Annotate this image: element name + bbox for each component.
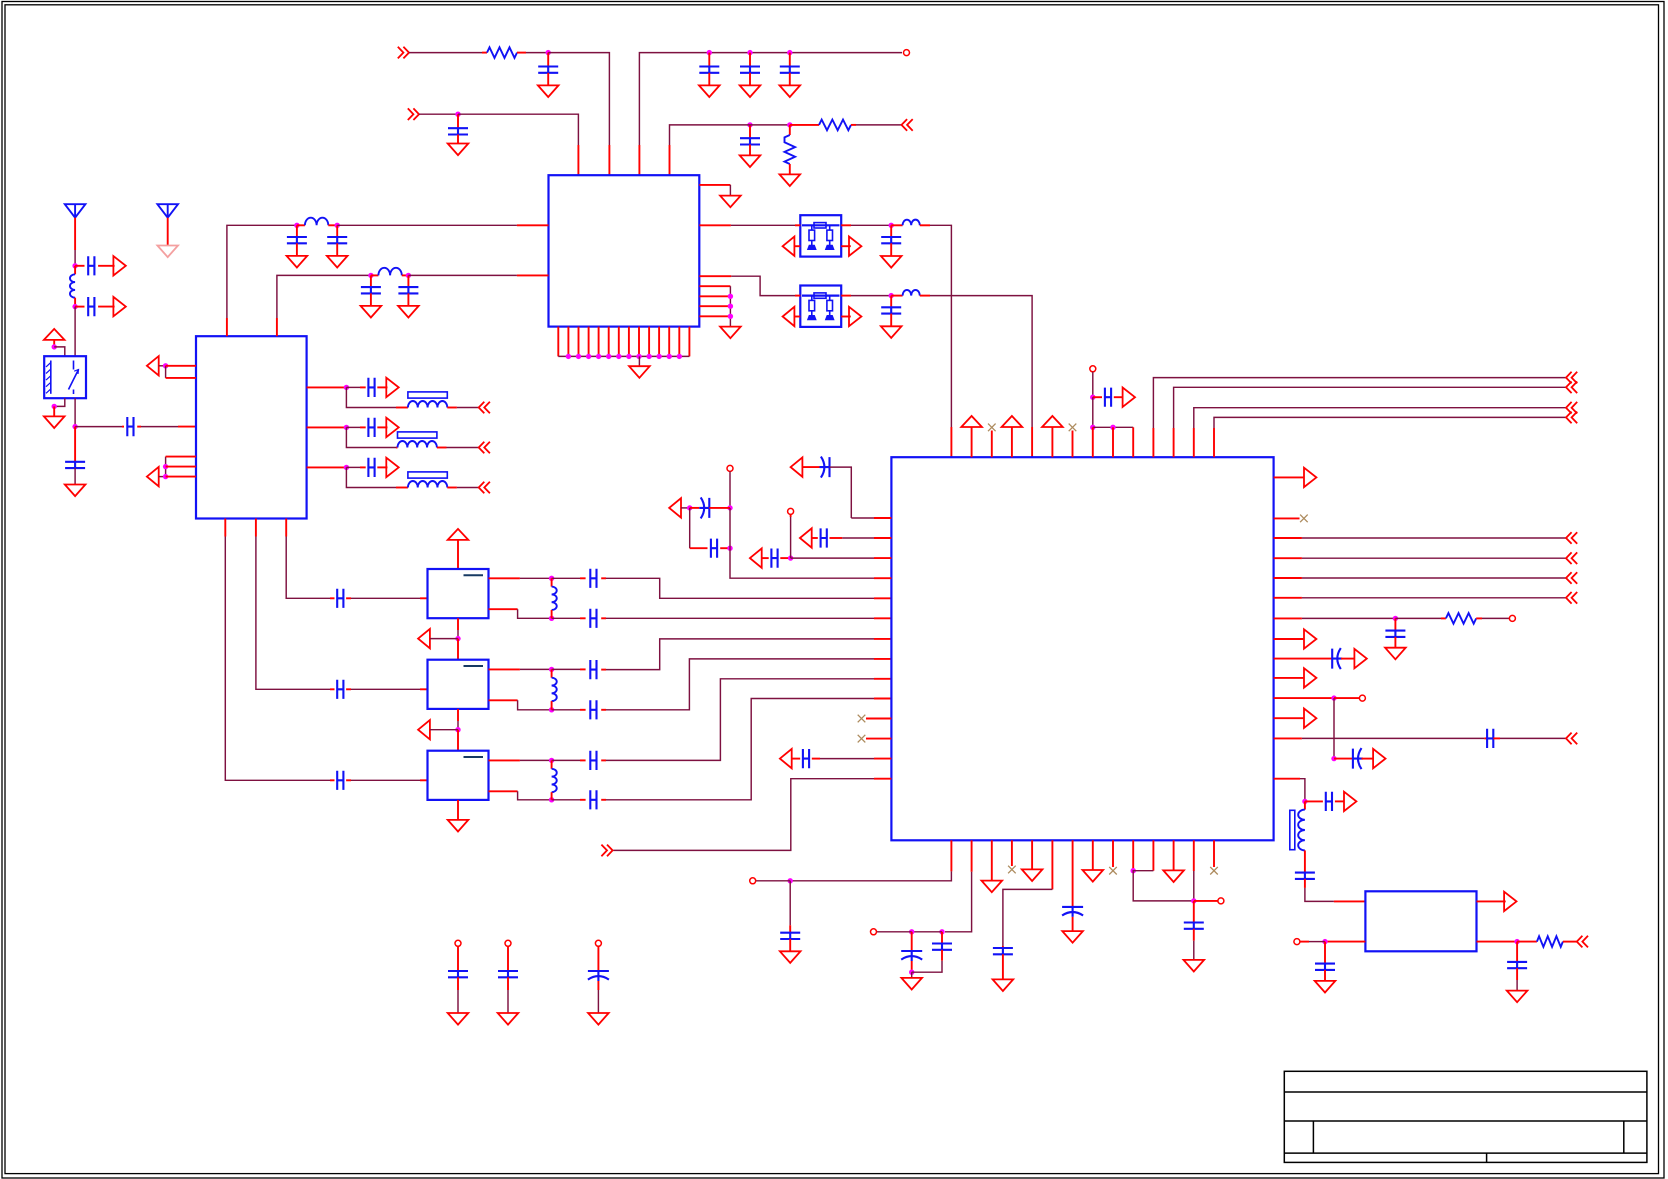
port P30: [1566, 382, 1577, 394]
junction: [728, 314, 733, 319]
wire: [296, 243, 298, 256]
wire: [396, 447, 398, 449]
junction: [586, 354, 591, 359]
port P2: [408, 108, 419, 120]
junction: [687, 505, 692, 510]
wire: [98, 306, 115, 308]
junction: [163, 464, 168, 469]
inductor core: [1290, 810, 1295, 849]
capacitor C23: [590, 569, 596, 588]
wire: [912, 961, 942, 973]
ground: [65, 485, 86, 497]
wire: [699, 224, 731, 226]
wire: [351, 597, 420, 599]
wire: [377, 386, 387, 388]
wire: [166, 365, 196, 367]
ground: [740, 155, 761, 167]
wire: [1092, 427, 1094, 457]
wire: [1274, 537, 1302, 539]
wire: [1214, 417, 1566, 428]
wire: [745, 124, 790, 126]
wire: [790, 517, 792, 558]
wire: [346, 386, 360, 388]
wire: [1300, 941, 1309, 943]
wire: [1274, 697, 1334, 699]
wire: [457, 730, 459, 751]
wire: [856, 124, 902, 126]
junction: [1090, 425, 1095, 430]
junction: [728, 304, 733, 309]
port P40: [1344, 792, 1356, 811]
junction: [707, 50, 712, 55]
junction: [549, 797, 554, 802]
capacitor C30: [821, 528, 827, 547]
wire: [520, 668, 552, 670]
wire: [729, 185, 731, 196]
wire: [874, 758, 891, 760]
capacitor C37: [1332, 648, 1342, 669]
ground: [498, 1013, 519, 1025]
wire: [729, 286, 731, 326]
wire: [1193, 941, 1195, 960]
wire: [789, 125, 791, 135]
port P27: [601, 845, 612, 857]
junction: [727, 546, 732, 551]
junction: [1131, 868, 1136, 873]
wire: [1302, 577, 1566, 579]
inductor L2: [903, 220, 920, 226]
junction: [787, 50, 792, 55]
wire: [1362, 758, 1373, 760]
junction: [72, 424, 77, 429]
ground: [1062, 931, 1083, 943]
capacitor: [588, 971, 609, 981]
wire: [75, 306, 84, 308]
port P5: [849, 237, 861, 256]
wire: [307, 426, 347, 428]
wire: [1305, 800, 1323, 802]
wire: [1152, 840, 1154, 870]
wire: [54, 347, 65, 356]
wire: [346, 467, 396, 487]
wire: [1477, 900, 1506, 902]
wire: [639, 53, 902, 145]
wire: [1193, 929, 1195, 941]
port P20: [418, 629, 430, 648]
wire: [457, 114, 459, 128]
wire: [588, 327, 590, 357]
wire: [749, 145, 751, 156]
ground: [699, 85, 720, 97]
port P7: [849, 307, 861, 326]
wire: [557, 327, 559, 357]
wire: [812, 537, 818, 539]
wire: [874, 557, 891, 559]
wire: [552, 759, 580, 761]
wire: [812, 758, 820, 760]
capacitor C21: [337, 680, 343, 699]
junction: [728, 294, 733, 299]
wire: [911, 932, 913, 951]
ground: [44, 416, 65, 428]
wire: [945, 872, 972, 932]
wire: [1563, 941, 1577, 943]
antenna ANT2: [157, 204, 178, 218]
wire: [402, 274, 409, 276]
wire: [681, 507, 690, 509]
wire: [408, 274, 517, 276]
wire: [74, 298, 76, 307]
wire: [1274, 517, 1300, 519]
wire: [601, 669, 606, 671]
wire: [1031, 427, 1033, 457]
ground: [538, 85, 559, 97]
wire: [346, 688, 351, 690]
wire: [547, 73, 549, 86]
capacitor C3: [740, 67, 760, 73]
capacitor C35: [1105, 388, 1111, 407]
no-connect X: [1109, 867, 1117, 875]
ground: [629, 366, 650, 378]
wire: [930, 296, 1032, 427]
ground: [1184, 960, 1205, 972]
amplifier U6: [428, 660, 489, 709]
wire: [457, 618, 459, 630]
wire: [699, 295, 730, 297]
wire: [137, 426, 141, 428]
junction: [667, 354, 672, 359]
junction: [889, 223, 894, 228]
wire: [224, 519, 226, 537]
inductor L8: [552, 587, 557, 610]
wire: [159, 365, 166, 367]
wire: [1304, 879, 1306, 888]
wire: [517, 52, 526, 54]
wire: [830, 537, 843, 539]
junction: [335, 223, 340, 228]
wire: [1072, 431, 1074, 458]
wire: [720, 547, 730, 549]
resistor R3: [819, 120, 851, 131]
wire: [670, 125, 746, 145]
wire: [457, 407, 479, 409]
wire: [1072, 917, 1074, 931]
wire: [789, 73, 791, 86]
junction: [549, 707, 554, 712]
no-connect X: [1300, 515, 1308, 523]
wire: [638, 145, 640, 175]
wire: [749, 53, 751, 67]
wire: [789, 925, 791, 933]
capacitor C31: [771, 549, 777, 568]
wire: [75, 265, 84, 267]
wire: [346, 387, 396, 407]
ground: [982, 881, 1003, 893]
wire: [489, 759, 520, 761]
ground: [588, 1013, 609, 1025]
capacitor C28: [590, 790, 596, 809]
no-connect circle: [788, 508, 794, 514]
wire: [1274, 737, 1302, 739]
no-connect X: [858, 715, 866, 723]
wire: [457, 630, 459, 639]
wire: [1517, 941, 1537, 943]
wire: [551, 760, 553, 768]
wire: [437, 447, 447, 449]
wire: [731, 224, 795, 226]
wire: [337, 224, 517, 226]
no-connect X: [858, 735, 866, 743]
wire: [792, 758, 801, 760]
wire: [552, 577, 580, 579]
wire: [1335, 800, 1344, 802]
ground: [448, 820, 469, 832]
wire: [794, 245, 800, 247]
junction: [787, 122, 792, 127]
no-connect circle: [750, 878, 756, 884]
wire: [780, 557, 790, 559]
port P14b: [479, 482, 490, 494]
no-connect circle: [1294, 939, 1300, 945]
port P39: [1373, 749, 1385, 768]
wire: [851, 124, 856, 126]
wire: [1193, 428, 1195, 457]
wire: [346, 426, 360, 428]
inductor L1: [70, 274, 75, 297]
wire: [658, 327, 660, 357]
wire: [1194, 408, 1566, 428]
wire: [941, 932, 943, 944]
wire: [601, 709, 606, 711]
capacitor C9: [88, 256, 94, 275]
wire: [580, 709, 586, 711]
port P10: [147, 356, 159, 375]
wire: [613, 779, 874, 851]
wire: [1302, 597, 1566, 599]
capacitor C42: [1507, 962, 1527, 968]
wire: [1274, 557, 1302, 559]
port P34: [1304, 629, 1316, 648]
wire: [407, 293, 409, 306]
wire: [346, 597, 351, 599]
wire: [731, 276, 795, 295]
capacitor C44: [780, 933, 800, 939]
capacitor C41: [1295, 873, 1315, 879]
junction: [626, 354, 631, 359]
wire: [790, 124, 819, 126]
ground: [780, 951, 801, 963]
wire: [98, 265, 115, 267]
wire: [598, 327, 600, 357]
wire: [360, 386, 366, 388]
SAW filter FL2: [800, 286, 841, 327]
wire: [165, 457, 167, 477]
wire: [447, 407, 457, 409]
wire: [256, 537, 330, 690]
wire: [330, 688, 335, 690]
port: [1566, 592, 1577, 604]
junction: [549, 667, 554, 672]
capacitor C5: [448, 128, 468, 134]
wire: [866, 718, 891, 720]
port P26: [780, 749, 792, 768]
wire: [597, 990, 599, 1013]
wire: [447, 487, 457, 489]
wire: [874, 577, 891, 579]
wire: [1051, 427, 1053, 457]
port P29: [1566, 372, 1577, 384]
wire: [1274, 638, 1304, 640]
wire: [606, 578, 874, 598]
wire: [74, 266, 76, 275]
title block: [1284, 1071, 1647, 1162]
wire: [1193, 840, 1195, 871]
wire: [371, 274, 379, 276]
wire: [1173, 840, 1175, 870]
wire: [708, 53, 710, 67]
power flag: [448, 529, 469, 540]
wire: [1477, 941, 1518, 943]
junction: [1393, 616, 1398, 621]
port P13b: [479, 442, 490, 454]
junction: [566, 354, 571, 359]
junction: [909, 970, 914, 975]
wire: [1274, 597, 1302, 599]
wire: [330, 779, 335, 781]
wire: [1193, 901, 1195, 923]
junction: [747, 122, 752, 127]
wire: [601, 617, 606, 619]
wire: [795, 224, 800, 226]
wire: [552, 668, 580, 670]
wire: [1112, 840, 1114, 867]
port P13a: [386, 418, 398, 437]
ground: [740, 85, 761, 97]
port P31: [1566, 402, 1577, 414]
wire: [1493, 737, 1500, 739]
wire: [489, 668, 520, 670]
wire: [507, 946, 509, 971]
wire: [1011, 427, 1013, 457]
junction: [406, 273, 411, 278]
wire: [794, 316, 800, 318]
wire: [307, 386, 347, 388]
wire: [1333, 698, 1335, 759]
wire: [297, 224, 305, 226]
wire: [606, 679, 874, 761]
wire: [890, 225, 892, 237]
wire: [165, 366, 167, 378]
no-connect circle: [871, 929, 877, 935]
wire: [547, 53, 549, 67]
wire: [1153, 378, 1566, 428]
wire: [420, 597, 428, 599]
junction: [616, 354, 621, 359]
wire: [1003, 889, 1053, 946]
wire: [1341, 658, 1354, 660]
port P6: [783, 307, 795, 326]
capacitor C8: [881, 307, 901, 313]
wire: [1304, 850, 1306, 872]
junction: [596, 354, 601, 359]
wire: [1274, 476, 1304, 478]
port P42: [1577, 936, 1588, 948]
wire: [971, 427, 973, 457]
wire: [227, 225, 297, 318]
wire: [1324, 970, 1326, 981]
junction: [52, 404, 57, 409]
wire: [1002, 954, 1004, 979]
wire: [709, 507, 730, 509]
capacitor C10: [88, 297, 94, 316]
capacitor C38: [1487, 729, 1493, 748]
wire: [166, 476, 196, 478]
wire: [841, 316, 851, 318]
wire: [1484, 737, 1487, 739]
wire: [1051, 840, 1053, 889]
wire: [699, 184, 730, 186]
wire: [507, 990, 509, 1013]
capacitor C24: [590, 609, 596, 628]
wire: [430, 729, 458, 731]
IC U2: [549, 175, 700, 326]
wire: [457, 977, 459, 990]
wire: [699, 315, 730, 317]
wire: [1394, 618, 1396, 630]
ground: [993, 979, 1014, 991]
wire: [457, 540, 459, 569]
wire: [920, 295, 930, 297]
wire: [1324, 942, 1326, 964]
wire: [1274, 658, 1333, 660]
port P25: [669, 498, 681, 517]
wire: [552, 799, 580, 801]
capacitor C11: [127, 417, 133, 436]
wire: [874, 537, 891, 539]
wire: [991, 431, 993, 458]
wire: [526, 52, 548, 54]
wire: [699, 305, 730, 307]
junction: [788, 878, 793, 883]
wire: [1334, 697, 1359, 699]
resistor R2: [785, 135, 796, 164]
junction: [344, 385, 349, 390]
ground: [901, 978, 922, 990]
port P28: [1123, 388, 1135, 407]
wire: [457, 709, 459, 721]
junction: [1191, 898, 1196, 903]
wire: [489, 790, 518, 792]
wire: [377, 466, 387, 468]
wire: [507, 977, 509, 990]
capacitor C26: [590, 700, 596, 719]
capacitor C25: [590, 660, 596, 679]
wire: [1093, 426, 1133, 428]
wire: [597, 946, 599, 971]
wire: [360, 466, 366, 468]
wire: [874, 597, 891, 599]
port P37: [1304, 709, 1316, 728]
port P4: [783, 237, 795, 256]
capacitor: [498, 971, 518, 977]
wire: [1092, 372, 1094, 397]
wire: [699, 285, 730, 287]
wire: [328, 224, 337, 226]
wire: [874, 698, 891, 700]
port P8: [113, 256, 125, 275]
junction: [889, 293, 894, 298]
wire: [950, 840, 952, 871]
